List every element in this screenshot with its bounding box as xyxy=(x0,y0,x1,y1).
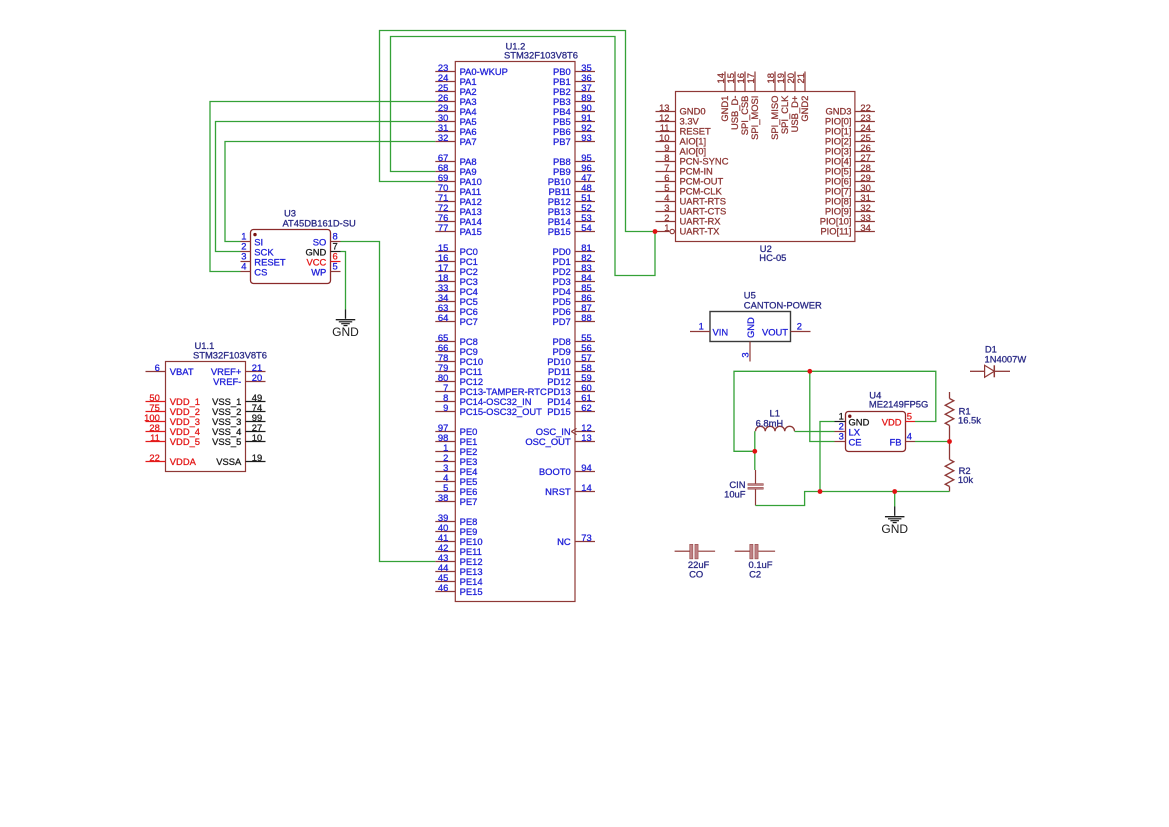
U2 pin 3 (UART-CTS) xyxy=(656,202,727,217)
U2 pin 19 (SPI_CLK) xyxy=(775,72,790,135)
U2 pin 13 (GND0) xyxy=(656,102,706,117)
U2 pin 20 (USB_D+) xyxy=(785,72,800,133)
wire VIN bus to U4 VDD xyxy=(734,371,936,451)
svg-text:2: 2 xyxy=(797,321,802,332)
svg-text:3: 3 xyxy=(839,431,844,442)
U5 pin 1 (VIN) xyxy=(690,321,728,338)
U1.2 pin 59 (PD12) xyxy=(547,372,595,387)
U2 pin 21 (GND2) xyxy=(795,72,810,122)
svg-text:PA15: PA15 xyxy=(460,226,482,237)
U5 pin 3 (GND) xyxy=(740,317,756,362)
svg-text:10: 10 xyxy=(252,432,262,443)
svg-text:PD15: PD15 xyxy=(547,406,570,417)
U1.1 pin 99 (VSS_3) xyxy=(212,412,265,427)
capacitor CIN 10uF xyxy=(724,470,763,506)
U1.2 pin 3 (PE4) xyxy=(435,462,477,477)
U1.2 pin 62 (PD15) xyxy=(547,402,595,417)
U2 pin 12 (3.3V) xyxy=(656,112,700,127)
U1.2 pin 38 (PE7) xyxy=(435,492,477,507)
U4 pin 1 (GND) xyxy=(835,411,870,428)
svg-text:PC15-OSC32_OUT: PC15-OSC32_OUT xyxy=(460,406,543,417)
U2 pin 5 (PCM-CLK) xyxy=(656,182,723,197)
U3 pin 8 (SO) xyxy=(313,230,341,247)
capacitor C2 0.1uF xyxy=(735,544,775,579)
svg-text:10uF: 10uF xyxy=(724,488,746,499)
wire U4 GND to bottom bus xyxy=(820,422,835,492)
U1.2 pin 32 (PA7) xyxy=(435,132,476,147)
svg-text:PIO[11]: PIO[11] xyxy=(820,226,851,237)
resistor R1 16.5k xyxy=(945,392,981,442)
U4 pin 1 marker dot xyxy=(848,415,851,418)
U2 pin 15 (USB_D-) xyxy=(725,72,740,130)
svg-text:93: 93 xyxy=(581,132,591,143)
svg-text:1N4007W: 1N4007W xyxy=(985,353,1027,364)
svg-text:VDD_5: VDD_5 xyxy=(170,436,200,447)
U3 pin 1 (SI) xyxy=(241,230,264,247)
svg-text:WP: WP xyxy=(311,266,326,277)
svg-text:BOOT0: BOOT0 xyxy=(539,466,571,477)
svg-text:22: 22 xyxy=(149,452,159,463)
svg-text:PD7: PD7 xyxy=(552,316,570,327)
svg-text:38: 38 xyxy=(438,492,448,503)
svg-text:VBAT: VBAT xyxy=(170,366,194,377)
U1.2 pin 89 (PB3) xyxy=(553,92,595,107)
junction bottom bus / U4 GND xyxy=(818,489,823,494)
ground symbol at power section xyxy=(881,507,908,537)
svg-text:GND: GND xyxy=(332,325,359,339)
U3 pin 7 (GND) xyxy=(305,240,340,257)
U1.2 pin 30 (PA5) xyxy=(435,112,476,127)
U4 pin 4 (FB) xyxy=(890,431,915,448)
U1.2 pin 13 (OSC_OUT) xyxy=(525,432,595,447)
U1.2 pin 2 (PE3) xyxy=(435,452,477,467)
U2 pin 18 (SPI_MISO) xyxy=(765,72,780,140)
U1.1 pin 100 (VDD_3) xyxy=(144,412,200,427)
U1.2 pin 93 (PB7) xyxy=(553,132,595,147)
U3 pin 6 (VCC) xyxy=(307,250,341,267)
U1.2 pin 48 (PB11) xyxy=(548,182,595,197)
svg-text:5: 5 xyxy=(907,411,912,422)
U1.2 pin 4 (PE5) xyxy=(435,472,477,487)
U3 pin 3 (RESET) xyxy=(241,250,286,267)
resistor R2 10k xyxy=(945,442,973,492)
U1.2 pin 86 (PD5) xyxy=(552,292,595,307)
junction at U2 UART-TX xyxy=(653,229,658,234)
U1.2 pin 23 (PA0-WKUP) xyxy=(435,62,508,77)
U1.2 pin 90 (PB4) xyxy=(553,102,595,117)
U1.2 pin 96 (PB9) xyxy=(553,162,595,177)
junction bottom bus / ground xyxy=(892,489,897,494)
svg-text:CANTON-POWER: CANTON-POWER xyxy=(744,300,822,311)
svg-text:AT45DB161D-SU: AT45DB161D-SU xyxy=(283,217,357,228)
U1.2 pin 15 (PC0) xyxy=(435,242,478,257)
svg-text:GND: GND xyxy=(745,317,756,338)
svg-text:1: 1 xyxy=(664,222,669,233)
diode D1 1N4007W xyxy=(970,344,1026,378)
svg-text:19: 19 xyxy=(252,452,262,463)
U1.1 pin 10 (VSS_5) xyxy=(212,432,265,447)
U1.2 pin 67 (PA8) xyxy=(435,152,476,167)
svg-text:77: 77 xyxy=(438,222,448,233)
svg-text:NC: NC xyxy=(557,536,571,547)
U2 pin 8 (PCN-SYNC) xyxy=(656,152,729,167)
junction top bus / CE xyxy=(807,369,812,374)
U1.2 pin 16 (PC1) xyxy=(435,252,478,267)
U1.2 pin 47 (PB10) xyxy=(548,172,595,187)
svg-text:9: 9 xyxy=(443,402,448,413)
U1.1 pin 20 (VREF-) xyxy=(213,372,265,387)
U2 pin 6 (PCM-OUT) xyxy=(656,172,724,187)
U1.2 pin 40 (PE9) xyxy=(435,522,477,537)
U2 pin 34 (PIO[11]) xyxy=(820,222,874,237)
U1.2 pin 54 (PB15) xyxy=(548,222,595,237)
svg-text:STM32F103V8T6: STM32F103V8T6 xyxy=(193,349,267,360)
U2 pin 29 (PIO[6]) xyxy=(825,172,875,187)
U1.2 pin 81 (PD0) xyxy=(552,242,595,257)
U1.2 pin 14 (NRST) xyxy=(545,482,595,497)
IC U4 ME2149FP5G regulator xyxy=(835,389,929,451)
U1.2 pin 69 (PA10) xyxy=(435,172,482,187)
U1.1 pin 28 (VDD_4) xyxy=(146,422,201,437)
svg-text:21: 21 xyxy=(795,73,806,83)
svg-text:PE15: PE15 xyxy=(460,586,483,597)
U1.2 pin 71 (PA12) xyxy=(435,192,482,207)
U1.1 pin 6 (VBAT) xyxy=(146,362,194,377)
IC U1.2 STM32F103V8T6 xyxy=(435,40,595,601)
U1.2 OSC_IN clock marker xyxy=(571,428,576,434)
U1.2 pin 5 (PE6) xyxy=(435,482,477,497)
svg-text:VDD: VDD xyxy=(882,416,902,427)
U1.2 pin 25 (PA2) xyxy=(435,82,476,97)
U1.1 pin 74 (VSS_2) xyxy=(212,402,265,417)
svg-text:VOUT: VOUT xyxy=(762,326,788,337)
U1.2 pin 9 (PC15-OSC32_OUT) xyxy=(435,402,542,417)
U4 pin 3 (CE) xyxy=(835,431,862,448)
U1.2 pin 46 (PE15) xyxy=(435,582,482,597)
junction FB / R1 / R2 xyxy=(947,439,952,444)
U3 pin 2 (SCK) xyxy=(241,240,275,257)
U1.2 pin 80 (PC12) xyxy=(435,372,483,387)
wire PA5 to U3 SCK xyxy=(216,122,436,252)
svg-text:PA7: PA7 xyxy=(460,136,477,147)
svg-text:6.8mH: 6.8mH xyxy=(756,417,784,428)
junction L1 left / CIN xyxy=(752,449,757,454)
U1.2 pin 70 (PA11) xyxy=(435,182,481,197)
U1.2 pin 39 (PE8) xyxy=(435,512,477,527)
svg-text:GND: GND xyxy=(881,522,908,536)
U2 pin 16 (SPI_CSB) xyxy=(735,72,750,136)
U3 pin 1 marker dot xyxy=(253,233,256,236)
U1.2 pin 91 (PB5) xyxy=(553,112,595,127)
U2 pin 28 (PIO[5]) xyxy=(825,162,875,177)
U1.2 pin 87 (PD6) xyxy=(552,302,595,317)
U1.2 pin 76 (PA14) xyxy=(435,212,482,227)
U2 pin 11 (RESET) xyxy=(656,122,712,137)
U1.2 pin 31 (PA6) xyxy=(435,122,476,137)
U1.2 pin 8 (PC14-OSC32_IN) xyxy=(435,392,531,407)
U1.2 pin 77 (PA15) xyxy=(435,222,482,237)
U1.1 pin 27 (VSS_4) xyxy=(212,422,265,437)
U1.2 pin 44 (PE13) xyxy=(435,562,482,577)
U1.2 pin 33 (PC4) xyxy=(435,282,478,297)
wire bottom ground bus xyxy=(756,492,950,506)
U1.2 pin 66 (PC9) xyxy=(435,342,478,357)
svg-text:13: 13 xyxy=(581,432,591,443)
U2 pin 9 (AIO[0]) xyxy=(656,142,707,157)
U1.1 pin 75 (VDD_2) xyxy=(146,402,201,417)
svg-text:UART-TX: UART-TX xyxy=(680,226,721,237)
svg-text:6: 6 xyxy=(155,362,160,373)
U1.2 pin 79 (PC11) xyxy=(435,362,482,377)
svg-text:17: 17 xyxy=(745,73,756,83)
U1.2 pin 52 (PB13) xyxy=(548,202,595,217)
U4 pin 5 (VDD) xyxy=(882,411,915,428)
wire PA9 to U2 UART-TX junction xyxy=(391,37,656,276)
wire top bus to U4 CE xyxy=(810,371,835,441)
svg-text:32: 32 xyxy=(438,132,448,143)
U1.2 pin 98 (PE1) xyxy=(435,432,477,447)
U5 pin 2 (VOUT) xyxy=(762,321,811,338)
IC U3 AT45DB161D-SU flash memory xyxy=(241,207,357,283)
U2 pin 33 (PIO[10]) xyxy=(820,212,875,227)
U1.2 pin 55 (PD8) xyxy=(552,332,595,347)
wire U3 GND pin to ground xyxy=(341,252,346,310)
svg-text:OSC_OUT: OSC_OUT xyxy=(525,436,571,447)
U3 pin 4 (CS) xyxy=(241,260,268,277)
svg-text:VIN: VIN xyxy=(713,326,729,337)
inductor L1 6.8mH xyxy=(756,408,795,432)
U1.2 pin 7 (PC13-TAMPER-RTC) xyxy=(435,382,547,397)
svg-text:CO: CO xyxy=(689,568,703,579)
U1.2 pin 26 (PA3) xyxy=(435,92,476,107)
U1.2 pin 34 (PC5) xyxy=(435,292,478,307)
svg-text:GND2: GND2 xyxy=(799,96,810,122)
svg-text:34: 34 xyxy=(860,222,870,233)
svg-text:FB: FB xyxy=(890,436,902,447)
U1.1 pin 19 (VSSA) xyxy=(216,452,265,467)
svg-text:64: 64 xyxy=(438,312,448,323)
U1.2 pin 1 (PE2) xyxy=(435,442,477,457)
svg-text:10k: 10k xyxy=(958,474,973,485)
svg-text:94: 94 xyxy=(581,462,591,473)
U2 pin 24 (PIO[1]) xyxy=(825,122,875,137)
svg-text:62: 62 xyxy=(581,402,591,413)
svg-text:16.5k: 16.5k xyxy=(958,415,981,426)
U1.2 pin 60 (PD13) xyxy=(547,382,595,397)
svg-text:HC-05: HC-05 xyxy=(759,252,786,263)
connector U5 CANTON-POWER xyxy=(690,289,822,361)
svg-text:VSSA: VSSA xyxy=(216,456,242,467)
U1.2 pin 35 (PB0) xyxy=(553,62,595,77)
U1.1 pin 21 (VREF+) xyxy=(211,362,266,377)
IC U1.1 STM32F103V8T6 power pins xyxy=(144,340,267,472)
U2 pin 14 (GND1) xyxy=(715,72,730,122)
wire L1 right to U4 LX xyxy=(795,431,835,433)
svg-text:CS: CS xyxy=(254,266,267,277)
U1.2 pin 78 (PC10) xyxy=(435,352,483,367)
U1.2 pin 29 (PA4) xyxy=(435,102,476,117)
U1.2 pin 37 (PB2) xyxy=(553,82,595,97)
U1.2 pin 43 (PE12) xyxy=(435,552,482,567)
U1.2 pin 94 (BOOT0) xyxy=(539,462,595,477)
U1.2 pin 82 (PD1) xyxy=(552,252,595,267)
svg-text:46: 46 xyxy=(438,582,448,593)
U2 pin 25 (PIO[2]) xyxy=(825,132,875,147)
svg-text:1: 1 xyxy=(699,321,704,332)
wire U3 SO to PE12 xyxy=(341,242,436,562)
ground symbol at U3 GND pin xyxy=(332,310,359,340)
U1.2 pin 56 (PD9) xyxy=(552,342,595,357)
U1.1 pin 11 (VDD_5) xyxy=(146,432,201,447)
wire L1 left to CIN top xyxy=(754,431,756,470)
U1.2 pin 68 (PA9) xyxy=(435,162,476,177)
U2 pin 31 (PIO[8]) xyxy=(825,192,875,207)
svg-text:VREF-: VREF- xyxy=(213,376,241,387)
U1.1 pin 22 (VDDA) xyxy=(146,452,197,467)
U2 pin 17 (SPI_MOSI) xyxy=(745,72,760,140)
wire ground bus to GND symbol xyxy=(894,492,896,507)
svg-text:3: 3 xyxy=(740,352,751,357)
U1.1 pin 50 (VDD_1) xyxy=(146,392,201,407)
svg-text:ME2149FP5G: ME2149FP5G xyxy=(869,399,928,410)
U1.2 pin 88 (PD7) xyxy=(552,312,595,327)
U2 pin 7 (PCM-IN) xyxy=(656,162,713,177)
U2 pin 30 (PIO[7]) xyxy=(825,182,875,197)
U2 pin 23 (PIO[0]) xyxy=(825,112,875,127)
U1.2 pin 64 (PC7) xyxy=(435,312,478,327)
capacitor CO 22uF xyxy=(675,544,716,579)
wire PA7 to U3 SI xyxy=(225,142,435,242)
U1.2 pin 63 (PC6) xyxy=(435,302,478,317)
svg-text:PB15: PB15 xyxy=(548,226,571,237)
svg-text:PE7: PE7 xyxy=(460,496,478,507)
U2 pin 10 (AIO[1]) xyxy=(656,132,707,147)
U1.2 pin 24 (PA1) xyxy=(435,72,476,87)
U1.2 pin 41 (PE10) xyxy=(435,532,482,547)
U1.1 pin 49 (VSS_1) xyxy=(212,392,265,407)
svg-text:88: 88 xyxy=(581,312,591,323)
U1.2 pin 95 (PB8) xyxy=(553,152,595,167)
svg-text:VSS_5: VSS_5 xyxy=(212,436,241,447)
U3 pin 5 (WP) xyxy=(311,260,340,277)
IC U2 HC-05 bluetooth module xyxy=(656,72,875,263)
svg-text:PC7: PC7 xyxy=(460,316,478,327)
svg-text:PB7: PB7 xyxy=(553,136,571,147)
U1.2 pin 92 (PB6) xyxy=(553,122,595,137)
wire PA3 to U3 CS xyxy=(210,102,435,272)
U1.2 pin 61 (PD14) xyxy=(547,392,595,407)
U1.2 pin 17 (PC2) xyxy=(435,262,478,277)
U1.2 pin 97 (PE0) xyxy=(435,422,477,437)
U1.2 pin 36 (PB1) xyxy=(553,72,595,87)
U1.2 pin 45 (PE14) xyxy=(435,572,482,587)
U1.2 pin 65 (PC8) xyxy=(435,332,478,347)
U2 pin 2 (UART-RX) xyxy=(656,212,722,227)
svg-text:STM32F103V8T6: STM32F103V8T6 xyxy=(504,49,578,60)
U1.2 pin 12 (OSC_IN) xyxy=(536,422,595,437)
svg-text:4: 4 xyxy=(907,431,912,442)
U1.2 pin 84 (PD3) xyxy=(552,272,595,287)
svg-text:CE: CE xyxy=(849,436,862,447)
U2 pin 27 (PIO[4]) xyxy=(825,152,875,167)
svg-text:11: 11 xyxy=(150,432,160,443)
wire PA10 to U2 UART-TX xyxy=(380,31,656,232)
U1.2 pin 57 (PD10) xyxy=(547,352,595,367)
svg-text:NRST: NRST xyxy=(545,486,571,497)
svg-text:73: 73 xyxy=(581,532,591,543)
svg-text:20: 20 xyxy=(252,372,262,383)
svg-text:VDDA: VDDA xyxy=(170,456,197,467)
U2 pin 1 (UART-TX) with bubble xyxy=(656,222,721,237)
U1.2 pin 18 (PC3) xyxy=(435,272,478,287)
svg-text:5: 5 xyxy=(333,260,338,271)
svg-text:4: 4 xyxy=(241,260,246,271)
U1.2 pin 53 (PB14) xyxy=(548,212,595,227)
U1.2 pin 51 (PB12) xyxy=(548,192,595,207)
U1.2 pin 42 (PE11) xyxy=(435,542,482,557)
U1.2 pin 72 (PA13) xyxy=(435,202,482,217)
U2 pin 26 (PIO[3]) xyxy=(825,142,875,157)
wire U4 FB to R1/R2 divider xyxy=(915,441,950,443)
U2 pin 32 (PIO[9]) xyxy=(825,202,875,217)
svg-text:C2: C2 xyxy=(749,568,761,579)
U2 pin 4 (UART-RTS) xyxy=(656,192,727,207)
svg-text:SPI_MOSI: SPI_MOSI xyxy=(749,96,760,140)
svg-text:14: 14 xyxy=(581,482,591,493)
svg-text:54: 54 xyxy=(581,222,591,233)
U1.2 pin 85 (PD4) xyxy=(552,282,595,297)
U4 pin 2 (LX) xyxy=(835,421,861,438)
U1.2 pin 83 (PD2) xyxy=(552,262,595,277)
U1.2 pin 58 (PD11) xyxy=(548,362,595,377)
U2 pin 22 (GND3) xyxy=(825,102,874,117)
U1.2 pin 73 (NC) xyxy=(557,532,595,547)
